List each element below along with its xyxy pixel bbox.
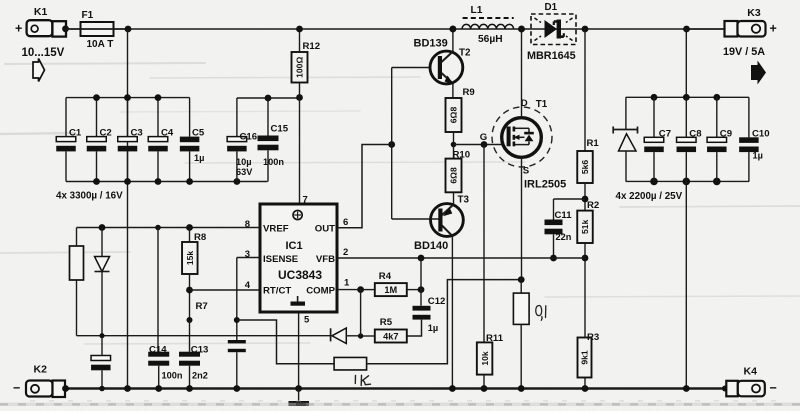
svg-text:6: 6: [343, 217, 348, 228]
svg-text:4k7: 4k7: [383, 331, 398, 341]
svg-text:6Ω8: 6Ω8: [449, 167, 459, 184]
svg-text:63V: 63V: [236, 167, 253, 177]
svg-text:+: +: [770, 22, 777, 36]
svg-text:56µH: 56µH: [478, 34, 503, 45]
svg-text:ISENSE: ISENSE: [263, 254, 299, 265]
svg-text:19V / 5A: 19V / 5A: [723, 46, 765, 58]
svg-text:C7: C7: [659, 129, 671, 140]
svg-text:10A T: 10A T: [87, 39, 114, 50]
svg-text:100n: 100n: [263, 157, 284, 167]
svg-text:C4: C4: [161, 127, 174, 138]
svg-text:4x 3300µ / 16V: 4x 3300µ / 16V: [56, 191, 123, 202]
svg-text:8: 8: [245, 219, 250, 230]
svg-text:6Ω8: 6Ω8: [449, 107, 459, 124]
svg-text:K1: K1: [34, 6, 48, 18]
svg-text:VFB: VFB: [316, 254, 335, 265]
svg-text:R5: R5: [380, 317, 393, 328]
svg-text:R11: R11: [486, 333, 504, 344]
svg-text:BD140: BD140: [414, 240, 448, 252]
svg-text:C16: C16: [240, 132, 258, 143]
svg-text:C15: C15: [271, 124, 289, 135]
svg-text:10µ: 10µ: [236, 157, 252, 167]
svg-text:R12: R12: [303, 41, 321, 52]
svg-text:10k: 10k: [480, 351, 490, 366]
svg-text:−: −: [13, 381, 20, 395]
svg-text:100n: 100n: [162, 370, 183, 380]
svg-text:1µ: 1µ: [753, 151, 763, 161]
svg-text:C14: C14: [149, 344, 167, 355]
svg-text:K4: K4: [744, 366, 758, 378]
svg-text:RT/CT: RT/CT: [263, 286, 291, 297]
svg-text:1: 1: [344, 278, 350, 289]
svg-text:2: 2: [343, 247, 348, 258]
svg-text:MBR1645: MBR1645: [527, 50, 576, 62]
svg-text:T2: T2: [459, 47, 471, 58]
svg-text:2n2: 2n2: [192, 370, 208, 380]
svg-text:5k6: 5k6: [580, 160, 590, 175]
svg-text:C2: C2: [100, 127, 112, 138]
svg-text:F1: F1: [82, 10, 94, 21]
svg-text:1µ: 1µ: [194, 153, 204, 163]
svg-text:3: 3: [245, 249, 250, 260]
svg-text:R4: R4: [379, 271, 392, 282]
svg-text:C5: C5: [192, 127, 205, 138]
svg-text:C12: C12: [428, 296, 446, 307]
svg-text:+: +: [15, 22, 22, 36]
svg-text:C10: C10: [752, 129, 770, 140]
svg-text:R7: R7: [196, 301, 208, 312]
svg-text:IC1: IC1: [285, 240, 302, 252]
svg-text:5: 5: [304, 315, 310, 326]
svg-text:R10: R10: [453, 149, 471, 160]
svg-text:L1: L1: [471, 5, 483, 16]
svg-text:OUT: OUT: [315, 224, 335, 235]
svg-text:C13: C13: [191, 344, 209, 355]
svg-text:10...15V: 10...15V: [22, 47, 65, 59]
svg-text:C9: C9: [720, 129, 732, 140]
svg-text:51k: 51k: [580, 219, 590, 234]
svg-text:K3: K3: [747, 7, 761, 19]
svg-text:−: −: [770, 381, 777, 395]
svg-text:D: D: [521, 98, 528, 109]
svg-text:C1: C1: [69, 127, 82, 138]
svg-text:T3: T3: [458, 195, 470, 206]
svg-text:R1: R1: [587, 138, 600, 149]
svg-text:UC3843: UC3843: [278, 268, 322, 282]
svg-text:15k: 15k: [185, 251, 195, 266]
svg-text:22n: 22n: [556, 232, 572, 242]
svg-text:R9: R9: [463, 87, 475, 98]
svg-text:4x 2200µ / 25V: 4x 2200µ / 25V: [616, 191, 683, 202]
svg-text:1µ: 1µ: [428, 323, 438, 333]
svg-text:R8: R8: [194, 232, 207, 243]
svg-text:R3: R3: [587, 332, 599, 343]
svg-text:BD139: BD139: [414, 38, 448, 50]
svg-text:C11: C11: [555, 210, 573, 221]
svg-text:100Ω: 100Ω: [295, 57, 305, 78]
svg-text:G: G: [480, 132, 487, 143]
svg-text:C3: C3: [131, 127, 143, 138]
svg-text:C8: C8: [689, 129, 702, 140]
svg-text:S: S: [523, 166, 530, 177]
svg-text:COMP: COMP: [306, 286, 335, 297]
svg-text:D1: D1: [545, 2, 558, 13]
svg-text:1M: 1M: [384, 285, 397, 295]
svg-text:VREF: VREF: [263, 224, 289, 235]
svg-text:IRL2505: IRL2505: [524, 178, 566, 190]
svg-text:K2: K2: [34, 364, 48, 376]
svg-text:T1: T1: [536, 99, 548, 110]
svg-text:R2: R2: [587, 200, 599, 211]
svg-text:9k1: 9k1: [580, 350, 590, 365]
